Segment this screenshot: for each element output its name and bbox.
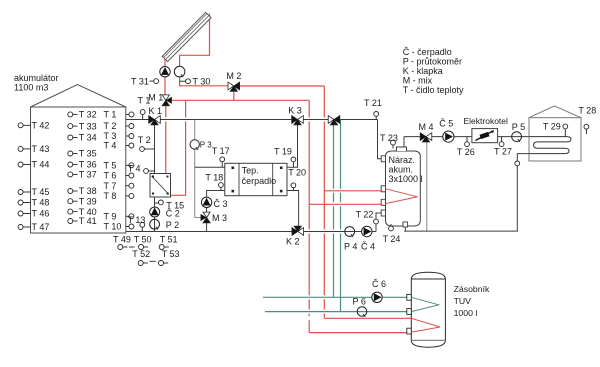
svg-text:Tep.: Tep.: [242, 166, 259, 176]
buffer tank top cap: [397, 147, 407, 151]
terminal T 45: [23, 191, 30, 193]
pump C4: [362, 226, 372, 236]
svg-text:1000 l: 1000 l: [454, 308, 478, 318]
flow meter P1: [174, 66, 185, 77]
valve (unlabeled) on main line: [328, 116, 334, 124]
mixer M 1: [162, 95, 169, 100]
tank accumulator body: [31, 107, 126, 233]
terminal T 42: [23, 124, 30, 126]
svg-text:T 28: T 28: [578, 105, 596, 115]
wire M4 stem down: [426, 141, 428, 231]
wire red M1 arm to riser x309: [172, 99, 309, 101]
wire red riser x324 lowest: [323, 299, 325, 318]
house heating coil: [529, 137, 571, 154]
svg-text:T 9: T 9: [104, 212, 117, 222]
svg-text:T 2: T 2: [104, 121, 117, 131]
svg-text:T 38: T 38: [79, 186, 97, 196]
sensor T 2 (line): [144, 148, 154, 150]
flow meter P5: [512, 132, 522, 142]
terminal T 48: [23, 202, 30, 204]
svg-text:T 30: T 30: [193, 76, 211, 86]
svg-text:T 33: T 33: [79, 121, 97, 131]
flow meter P4: [345, 227, 355, 237]
wire red M2 stem: [233, 92, 235, 100]
svg-text:T 13: T 13: [128, 215, 146, 225]
wire M4 left drop to buffer cap: [403, 137, 405, 149]
svg-text:Elektrokotel: Elektrokotel: [464, 116, 509, 126]
house roof: [529, 106, 581, 118]
wire boiler circuit line: [404, 136, 529, 138]
wire main supply line: [126, 119, 378, 121]
svg-text:T 49: T 49: [113, 235, 131, 245]
wire buffer bottom nipple drop: [404, 227, 406, 231]
svg-text:T 7: T 7: [104, 181, 117, 191]
svg-text:T 51: T 51: [160, 235, 178, 245]
svg-text:M 1: M 1: [148, 92, 163, 102]
wire M3 left arm: [195, 217, 202, 219]
wire red to TUV upper coil: [324, 317, 411, 319]
svg-text:T 6: T 6: [104, 171, 117, 181]
svg-text:Č 4: Č 4: [361, 242, 375, 252]
flow meter P2: [150, 219, 160, 229]
wire red M2 to right riser: [240, 85, 325, 87]
wire red C1 to M1: [164, 77, 166, 95]
svg-text:T 37: T 37: [79, 170, 97, 180]
pump C2: [150, 207, 160, 217]
svg-text:T 34: T 34: [79, 133, 97, 143]
svg-text:T 18: T 18: [205, 173, 223, 183]
svg-text:Č 3: Č 3: [214, 199, 228, 209]
pump C5: [443, 131, 454, 142]
svg-text:T 2: T 2: [138, 135, 151, 145]
sensor T 29: [564, 129, 566, 137]
heat exchanger box: [150, 174, 171, 198]
buffer tank nipple red-in: [381, 186, 385, 192]
wire C4 up into buffer tank: [376, 213, 382, 232]
TUV nipple teal-out: [407, 309, 412, 315]
svg-text:T 42: T 42: [32, 121, 50, 131]
wire main return line (tank bottom): [126, 231, 376, 233]
wire red riser x309 mid: [308, 122, 310, 230]
buffer tank nipple T22-in: [381, 210, 385, 216]
sensor T 19: [292, 162, 294, 167]
flow meter P3: [190, 140, 199, 149]
boiler heating element symbol: [476, 132, 493, 141]
wire K1 stem down to exchanger: [154, 122, 156, 174]
svg-text:T 21: T 21: [364, 98, 382, 108]
wire exchanger down through C2 P2: [154, 197, 156, 232]
svg-text:3x1000 l: 3x1000 l: [389, 174, 423, 184]
valve K 3: [292, 116, 298, 124]
wire K3 stem to heat pump box: [287, 122, 298, 167]
svg-text:T 26: T 26: [457, 147, 475, 157]
svg-text:P 3: P 3: [200, 141, 212, 150]
terminal T 38: [73, 190, 78, 192]
buffer tank body: [386, 151, 421, 226]
buffer tank nipple top-left: [381, 156, 385, 162]
svg-text:T 41: T 41: [79, 216, 97, 226]
svg-text:T 3: T 3: [104, 131, 117, 141]
sensor on house return pipe: [515, 161, 520, 166]
pump C3: [201, 197, 211, 207]
wire teal TUV return: [265, 311, 411, 313]
svg-text:Zásobník: Zásobník: [454, 284, 490, 294]
heat pump box: [225, 163, 287, 195]
svg-text:P 5: P 5: [512, 122, 525, 132]
svg-text:čerpadlo: čerpadlo: [242, 176, 277, 186]
TUV tank top seam: [411, 278, 445, 280]
sensor T 22 (on pipe): [374, 219, 379, 224]
svg-text:Náraz.: Náraz.: [389, 155, 416, 165]
svg-text:P 2: P 2: [166, 220, 179, 230]
TUV tank bottom seam: [411, 339, 445, 341]
TUV teal coil: [411, 297, 438, 311]
wire heat pump box to C3: [207, 191, 225, 198]
terminal T 32: [73, 113, 78, 115]
solar collector panel: [162, 12, 211, 61]
wire P3 branch to heat pump box: [195, 166, 225, 168]
wire teal TUV supply: [263, 296, 411, 298]
sensor T 1 (line): [142, 114, 144, 119]
flow meter P6: [357, 307, 367, 317]
terminal T 33: [73, 125, 78, 127]
svg-text:T 46: T 46: [32, 209, 50, 219]
svg-text:T 23: T 23: [380, 133, 398, 143]
wire teal riser A: [333, 124, 335, 298]
wire red to buffer coil bottom: [309, 203, 385, 205]
svg-text:T 47: T 47: [32, 222, 50, 232]
svg-text:T 31: T 31: [131, 76, 149, 86]
svg-text:P 6: P 6: [353, 297, 366, 307]
TUV nipple red-out: [407, 328, 412, 334]
dash between T52 and T53 terminals: [150, 260, 156, 262]
sensor T 27: [501, 137, 503, 142]
sensor T 15: [155, 202, 159, 204]
terminal T 44: [23, 164, 30, 166]
wire red collector left down: [164, 58, 166, 67]
svg-text:TUV: TUV: [454, 296, 472, 306]
TUV tank body: [411, 272, 445, 347]
wire red M1 down to exchanger: [165, 122, 167, 174]
boiler Elektrokotel box: [472, 129, 498, 143]
buffer tank nipple bottom: [403, 222, 408, 227]
terminal T 40: [73, 211, 78, 213]
valve K 2: [292, 228, 298, 236]
sensor T 18: [220, 187, 222, 190]
svg-text:T 35: T 35: [79, 149, 97, 159]
sensor T 23: [392, 145, 394, 149]
tank accumulator roof: [31, 85, 126, 108]
svg-text:Č 6: Č 6: [372, 279, 386, 289]
sensor T 28: [585, 129, 587, 134]
svg-text:T 32: T 32: [79, 110, 97, 120]
buffer tank nipple red-out: [381, 199, 385, 205]
valve K 1: [149, 116, 155, 124]
svg-text:akumulátor: akumulátor: [14, 73, 59, 83]
svg-text:T 20: T 20: [288, 168, 306, 178]
svg-text:T - čidlo teploty: T - čidlo teploty: [403, 85, 464, 95]
pump C1 (solar): [160, 67, 170, 77]
svg-text:T 43: T 43: [32, 144, 50, 154]
pump C6: [372, 292, 382, 302]
svg-text:M 2: M 2: [226, 71, 241, 81]
svg-text:T 24: T 24: [383, 234, 401, 244]
svg-text:M 3: M 3: [212, 213, 227, 223]
svg-text:Č - čerpadlo: Č - čerpadlo: [403, 47, 452, 57]
svg-text:T 17: T 17: [212, 146, 230, 156]
house body: [529, 118, 581, 161]
svg-text:T 36: T 36: [79, 160, 97, 170]
mixer M 3: [203, 212, 210, 217]
svg-text:Č 2: Č 2: [166, 208, 180, 218]
svg-text:K 2: K 2: [286, 237, 300, 247]
sensor T 24: [390, 224, 392, 226]
terminal T 43: [23, 148, 30, 150]
wire red collector right down: [180, 14, 210, 67]
svg-text:T 53: T 53: [162, 249, 180, 259]
svg-text:T 8: T 8: [104, 191, 117, 201]
wire red riser x324 mid: [323, 122, 325, 230]
wire red riser x324 lower: [323, 234, 325, 296]
svg-text:T 50: T 50: [134, 235, 152, 245]
svg-text:T 1: T 1: [104, 110, 117, 120]
svg-text:P - průtokoměr: P - průtokoměr: [403, 57, 462, 67]
sensor T 4 (line): [148, 170, 154, 172]
terminal T 41: [73, 220, 78, 222]
svg-text:T 39: T 39: [79, 196, 97, 206]
svg-text:T 4: T 4: [104, 141, 117, 151]
mixer M 4: [420, 133, 426, 141]
wire red to buffer coil top: [324, 190, 385, 192]
terminal T 37: [73, 173, 78, 175]
TUV nipple teal-in: [407, 294, 412, 300]
svg-text:T 22: T 22: [356, 210, 374, 220]
svg-text:T 5: T 5: [104, 161, 117, 171]
sensor T 30: [180, 80, 186, 82]
terminal T 46: [23, 213, 30, 215]
svg-text:T 27: T 27: [494, 146, 512, 156]
terminal T 47: [23, 226, 30, 228]
sensor T 26: [466, 137, 468, 142]
svg-text:M 4: M 4: [419, 122, 434, 132]
svg-text:Č 5: Č 5: [439, 118, 453, 128]
svg-text:K 3: K 3: [288, 106, 302, 116]
sensor T 17: [221, 162, 223, 168]
svg-text:akum.: akum.: [389, 165, 414, 175]
dash between T49 and T50 terminals: [129, 246, 135, 248]
terminal T 36: [73, 164, 78, 166]
wire P3 drop line: [194, 120, 196, 218]
TUV red coil: [411, 318, 440, 332]
terminal T 34: [73, 137, 78, 139]
wire heat pump box to K2: [287, 191, 299, 229]
svg-text:T 52: T 52: [132, 249, 150, 259]
svg-text:P 4: P 4: [344, 242, 357, 252]
wire red riser x324 upper: [323, 86, 325, 118]
svg-text:T 44: T 44: [32, 160, 50, 170]
terminal T 39: [73, 200, 78, 202]
wire red to TUV lower coil: [309, 332, 411, 334]
terminal T 35: [73, 153, 78, 155]
wire red branch to exchanger right: [171, 100, 186, 195]
wire red P1 to M2: [180, 77, 228, 86]
wire teal riser B: [340, 120, 342, 312]
sensor T 13: [141, 227, 143, 231]
svg-text:T 48: T 48: [32, 198, 50, 208]
svg-text:T 10: T 10: [104, 222, 122, 232]
sensor T 31: [150, 80, 154, 82]
wire house return bottom line: [404, 154, 529, 232]
mixer M 2: [228, 82, 234, 90]
wire red M1 down upper: [165, 106, 167, 118]
svg-text:T 4: T 4: [128, 164, 141, 174]
svg-text:T 45: T 45: [32, 187, 50, 197]
sensor T 21: [375, 116, 377, 119]
svg-text:K 1: K 1: [149, 106, 163, 116]
svg-text:T 29: T 29: [543, 121, 561, 131]
wire main supply drop to buffer tank: [378, 120, 382, 159]
wire red riser x309 upper: [308, 100, 310, 117]
wire red riser x309 lower: [308, 234, 310, 333]
svg-text:T 19: T 19: [274, 146, 292, 156]
svg-text:T 1: T 1: [138, 95, 151, 105]
buffer tank red coil: [386, 189, 418, 204]
wire C3 to M3: [206, 207, 208, 212]
wire M3 down to return line: [206, 223, 208, 232]
svg-text:1100 m3: 1100 m3: [14, 83, 48, 93]
sensor T 20: [292, 188, 294, 191]
